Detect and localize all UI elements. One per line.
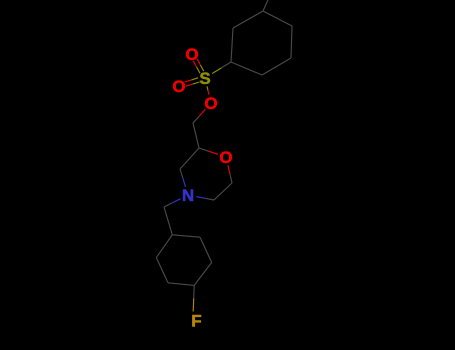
bond tolyl ring edge T5-T6: [233, 11, 263, 28]
bond C-F: [193, 285, 196, 298]
bond morpholine O1-C6: [228, 165, 230, 174]
bond CH2-C2 morpholine: [193, 123, 199, 148]
bond fluorophenyl ring edge A-B: [172, 235, 200, 237]
bond S-C(aryl) to tolyl ipso: [212, 68, 221, 74]
bond fluorophenyl ring edge D-E: [168, 283, 194, 286]
bond tolyl ring edge T2-T3: [262, 58, 291, 75]
bond tolyl para-methyl stub (clipped at top): [263, 0, 268, 11]
bond N-CH2 (benzyl): [172, 199, 180, 203]
bond CH2-C(aryl) fluorophenyl ipso: [164, 207, 172, 235]
double bond S=O (top oxygen), two parallel lines: [197, 67, 200, 73]
bond fluorophenyl ring edge E-G: [156, 258, 168, 283]
bond morpholine C5-N4: [205, 198, 214, 200]
svg-text:O: O: [185, 45, 198, 64]
bond tolyl ring edge T1-T2: [231, 62, 262, 75]
bond morpholine N4-C3: [183, 178, 186, 187]
bond morpholine C2-O1: [199, 148, 209, 151]
bond fluorophenyl ring edge G-A: [156, 235, 172, 258]
svg-text:N: N: [182, 186, 194, 205]
bond tolyl ring edge T6-T1: [231, 28, 233, 62]
bond fluorophenyl ring edge B-Cc: [200, 237, 212, 262]
bond morpholine C3-C2: [180, 148, 199, 169]
bond tolyl ring edge T4-T5: [263, 11, 292, 26]
bond ester O-CH2: [199, 109, 205, 116]
svg-text:O: O: [219, 148, 232, 167]
bond fluorophenyl ring edge Cc-D: [194, 262, 212, 285]
svg-text:O: O: [204, 94, 217, 113]
double bond S=O (left oxygen), two parallel lines: [193, 82, 200, 84]
bond morpholine C6-C5: [214, 183, 232, 200]
svg-text:S: S: [199, 69, 210, 88]
svg-text:O: O: [172, 77, 185, 96]
svg-text:F: F: [191, 312, 201, 331]
bond S-O ester: [207, 86, 208, 90]
bond tolyl ring edge T3-T4: [291, 26, 292, 58]
